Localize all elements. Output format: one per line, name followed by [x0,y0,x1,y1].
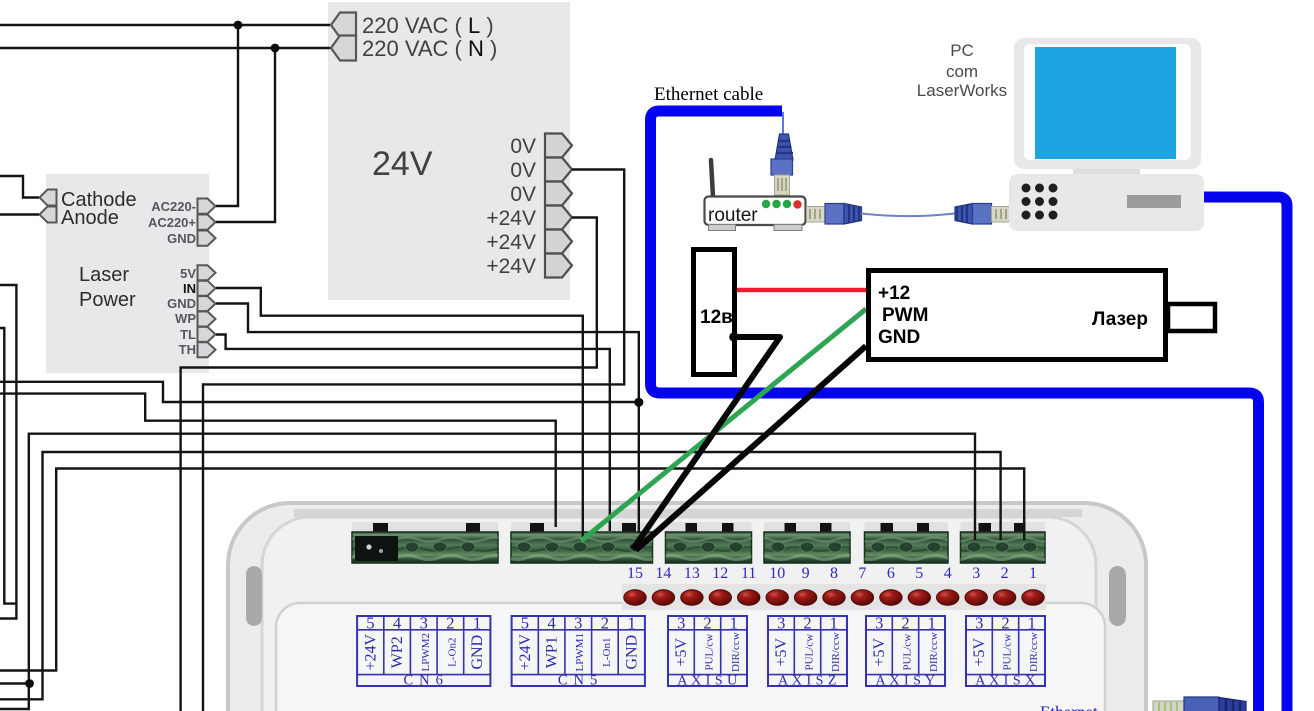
svg-text:AC220-: AC220- [151,199,196,214]
svg-text:A X I S X: A X I S X [975,674,1036,689]
board top recess band [294,509,1082,517]
svg-text:LPWM2: LPWM2 [420,633,432,672]
svg-text:+5V: +5V [871,637,888,666]
PSU output pins 0V 0V 0V +24V +24V +24V [545,134,572,278]
wire left edge loop 2 [0,328,17,604]
wire 0V out [203,170,624,711]
wire left edge loop 1 [0,285,16,619]
wire 220VAC L [0,24,330,26]
router body [705,197,806,226]
svg-text:L-On1: L-On1 [601,638,613,667]
svg-text:3: 3 [972,565,980,582]
junction node 12v [729,332,739,342]
router LEDs [762,200,770,208]
AXISY pin table [866,616,945,686]
svg-text:PUL/cw: PUL/cw [1002,634,1014,671]
ethernet pigtail to router plug [782,112,784,138]
wire TL to CN5 [216,335,610,532]
svg-text:5V: 5V [180,266,196,281]
wire left-381 to node [0,382,639,402]
svg-text:AC220+: AC220+ [148,215,196,230]
svg-text:+5V: +5V [673,637,690,666]
svg-text:1: 1 [730,614,738,633]
wire bottom stub [0,682,30,684]
svg-text:PUL/cw: PUL/cw [902,634,914,671]
router antenna [711,160,713,197]
svg-text:0V: 0V [510,183,536,206]
wire AC220- to L [216,25,238,206]
svg-text:14: 14 [655,565,671,582]
svg-text:3: 3 [574,614,582,633]
svg-text:2: 2 [1001,565,1009,582]
RJ45 plug PC side [955,204,1011,225]
router feet [709,225,736,231]
svg-text:L-On2: L-On2 [446,638,458,667]
svg-text:+24V: +24V [486,231,536,254]
Ethernet connector plug [1153,697,1246,711]
svg-text:DIR/ccw: DIR/ccw [928,632,940,672]
junction node L [234,21,243,30]
svg-text:3: 3 [875,614,883,633]
PC com LaserWorks label [917,41,1007,100]
svg-text:8: 8 [830,565,838,582]
wire 220VAC N [0,47,330,49]
svg-text:12в: 12в [700,307,733,328]
24V power supply box [328,2,570,300]
svg-text:Power: Power [79,289,136,311]
AXISU pin table [668,616,747,686]
svg-text:TH: TH [179,342,196,357]
green PWM wire [581,309,866,541]
svg-text:4: 4 [944,565,952,582]
AC220- AC220+ GND pins [198,199,216,246]
svg-text:2: 2 [901,614,909,633]
svg-text:IN: IN [183,281,196,296]
wire anode input [0,213,39,215]
wire left-394 to CN5 [0,394,556,527]
svg-text:A X I S Y: A X I S Y [876,674,936,689]
svg-text:5: 5 [915,565,923,582]
svg-text:+24V: +24V [486,207,536,230]
svg-text:2: 2 [601,614,609,633]
svg-text:1: 1 [928,614,936,633]
svg-text:Ethernet: Ethernet [1040,703,1098,711]
wire IN to CN5 [216,288,583,542]
svg-text:WP: WP [175,311,196,326]
svg-text:10: 10 [769,565,785,582]
PC monitor inner white [1024,44,1191,160]
svg-text:220 VAC ( L ): 220 VAC ( L ) [362,13,494,38]
svg-text:DIR/ccw: DIR/ccw [730,632,742,672]
terminal block CN6 [352,532,498,563]
svg-text:3: 3 [677,614,685,633]
svg-text:15: 15 [627,565,643,582]
black 12v diagonal wire [633,337,780,549]
LED strip [622,584,1046,610]
svg-text:PWM: PWM [882,305,928,326]
laser connector tab [1168,304,1215,331]
PC base unit [1009,174,1204,231]
red +12 wire [737,288,868,293]
laser driver box [869,271,1166,360]
terminal block moulding waves [352,538,1056,560]
board middle shell [262,517,1096,711]
terminal block CN5 [511,532,653,563]
patch cable to PC [861,214,955,217]
CN6 black plug end [355,536,398,561]
junction node bottom-left [25,679,34,688]
PC vent dots [1022,184,1058,220]
svg-text:1: 1 [627,614,635,633]
svg-text:11: 11 [741,565,756,582]
svg-text:5: 5 [521,614,529,633]
220 VAC (N) connector arrow [331,36,356,61]
svg-text:9: 9 [802,565,810,582]
svg-text:Ethernet cable: Ethernet cable [654,84,763,105]
board right slot [1109,566,1126,626]
svg-text:PUL/cw: PUL/cw [704,634,716,671]
svg-text:GND: GND [167,296,196,311]
svg-text:+5V: +5V [971,637,988,666]
svg-text:PC: PC [950,41,974,60]
svg-text:LaserWorks: LaserWorks [917,81,1007,100]
terminal recess backdrops [352,522,1045,564]
laser power supply box [46,174,209,373]
svg-text:LPWM1: LPWM1 [574,633,586,672]
terminal block AXISX [961,532,1046,563]
svg-text:1: 1 [473,614,481,633]
svg-text:TL: TL [180,327,196,342]
0V labels [486,135,536,278]
Anode input arrow [40,207,57,223]
svg-text:C N 6: C N 6 [403,673,444,689]
svg-text:0V: 0V [510,159,536,182]
terminal block AXISZ [764,532,850,563]
terminal tabs [373,523,1026,535]
wire cathode input [0,176,39,198]
svg-text:1: 1 [1029,565,1037,582]
svg-text:GND: GND [469,635,486,670]
svg-text:1: 1 [1028,614,1036,633]
svg-text:Лазер: Лазер [1092,309,1148,330]
svg-text:DIR/ccw: DIR/ccw [1028,632,1040,672]
board outer shell [228,503,1146,711]
svg-text:+12: +12 [878,283,910,304]
wire 468 to AXISX [0,469,1024,671]
svg-text:5: 5 [366,614,374,633]
svg-text:3: 3 [420,614,428,633]
svg-text:13: 13 [684,565,700,582]
12v box [694,250,735,375]
router right connector [807,207,826,223]
svg-text:4: 4 [393,614,401,633]
svg-text:A X I S U: A X I S U [677,674,738,689]
svg-text:2: 2 [703,614,711,633]
pin numbers 15..1 [627,565,1037,582]
svg-text:7: 7 [858,565,866,582]
AXISX pin table [966,616,1045,686]
svg-text:DIR/ccw: DIR/ccw [830,632,842,672]
LEDs [624,590,1044,606]
CN5 pin table [512,616,645,686]
220 VAC (L) connector arrow [331,13,356,38]
wire +24V out [181,218,597,711]
svg-text:WP1: WP1 [544,636,561,668]
terminal block AXISU [666,532,752,563]
svg-text:GND: GND [624,635,641,670]
svg-text:2: 2 [1001,614,1009,633]
board front panel [276,603,1105,711]
Cathode input arrow [40,190,57,206]
wire AC220+ to N [216,48,275,222]
svg-text:router: router [708,205,758,226]
svg-text:WP2: WP2 [389,636,406,668]
svg-text:24V: 24V [372,145,433,183]
laser power pins 5V IN GND WP TL TH [198,265,216,357]
wire 452 to AXISX [0,452,1001,699]
svg-text:Laser: Laser [79,264,129,286]
svg-text:2: 2 [803,614,811,633]
PC monitor [1014,38,1201,169]
board left slot [246,566,262,626]
svg-text:PUL/cw: PUL/cw [804,634,816,671]
svg-text:3: 3 [777,614,785,633]
ethernet cable PC to bottom [1203,197,1287,711]
svg-text:12: 12 [712,565,728,582]
svg-text:+5V: +5V [773,637,790,666]
svg-text:220 VAC ( N ): 220 VAC ( N ) [362,36,497,61]
svg-text:3: 3 [975,614,983,633]
RJ45 plug router side [825,204,862,225]
svg-text:2: 2 [446,614,454,633]
junction node mid [634,398,643,407]
black GND diagonal wire [636,346,866,550]
RJ45 plug into router (vertical) [771,134,793,195]
monitor stand [1073,169,1140,177]
svg-text:Anode: Anode [61,207,119,229]
svg-text:GND: GND [878,327,920,348]
svg-text:0V: 0V [510,135,536,158]
junction node N [271,44,280,53]
CN6 pin table [357,616,490,686]
wire 433 to AXISX [0,434,975,709]
terminal block AXISY [865,532,949,563]
PC screen [1035,47,1176,159]
svg-text:A X I S Z: A X I S Z [778,674,837,689]
wire GND to CN5 [216,304,639,534]
terminal contact dimples [405,542,1037,552]
svg-text:1: 1 [830,614,838,633]
svg-text:+24V: +24V [362,633,379,670]
svg-text:GND: GND [167,231,196,246]
svg-text:+24V: +24V [517,633,534,670]
svg-text:C N 5: C N 5 [558,673,599,689]
svg-text:+24V: +24V [486,255,536,278]
svg-text:6: 6 [887,565,895,582]
AXISZ pin table [768,616,847,686]
svg-text:com: com [946,62,978,81]
ethernet cable router loop [651,111,1259,711]
svg-text:4: 4 [547,614,555,633]
PC drive slot [1127,195,1181,208]
